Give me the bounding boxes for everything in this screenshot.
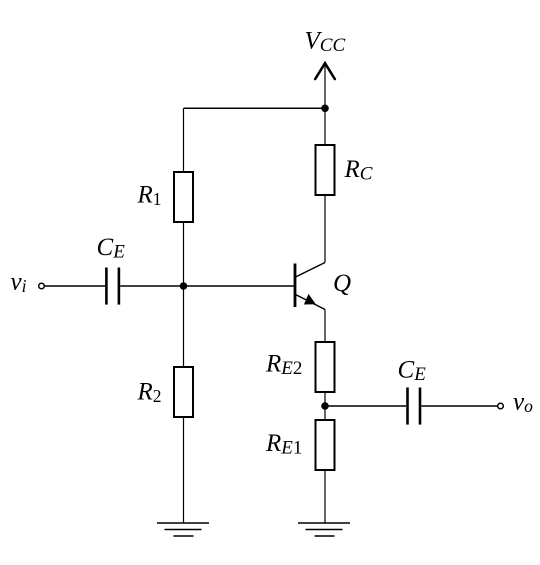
wire VCC node down to RC	[324, 108, 326, 145]
wire R2 bottom to ground	[183, 417, 185, 523]
resistor RC	[316, 145, 335, 195]
wire output node to RE1	[324, 406, 326, 420]
svg-text:Q: Q	[333, 270, 351, 297]
resistor R2	[174, 367, 193, 417]
power VCC arrow	[315, 63, 335, 108]
resistor RE1	[316, 420, 335, 470]
node output junction	[321, 402, 329, 410]
output terminal vo	[498, 403, 504, 409]
wire R1 bottom to base node	[183, 222, 185, 286]
wire emitter down to RE2	[324, 310, 326, 343]
input terminal vi	[39, 283, 45, 289]
resistor R1	[174, 172, 193, 222]
wire output node to capacitor	[325, 405, 406, 407]
node base junction	[180, 282, 188, 290]
capacitor CE (output)	[408, 388, 421, 425]
wire RE1 bottom to ground	[324, 470, 326, 523]
wire left branch vertical top (to R1)	[183, 108, 185, 172]
node VCC junction	[321, 105, 329, 113]
wire capacitor to base node	[120, 285, 183, 287]
capacitor CE (input)	[106, 268, 119, 305]
wire input terminal to capacitor	[45, 285, 106, 287]
wire base node down to R2	[183, 286, 185, 367]
wire base node to transistor base	[184, 285, 295, 287]
resistor RE2	[316, 342, 335, 392]
wire top horizontal from left branch to VCC node	[184, 107, 326, 109]
ground (left)	[157, 523, 209, 536]
wire RE2 bottom to output node	[324, 392, 326, 406]
transistor Q	[295, 263, 325, 310]
wire RC bottom to collector	[324, 195, 326, 263]
wire capacitor to output terminal	[421, 405, 497, 407]
ground (right)	[298, 523, 350, 536]
